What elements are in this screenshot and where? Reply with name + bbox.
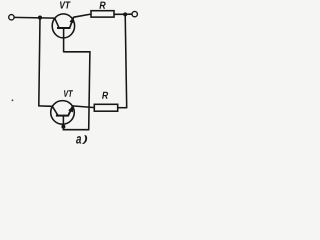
resistor R1 body (91, 11, 114, 17)
wire VT2 emitter to R2 (73, 106, 95, 108)
resistor R2 body (94, 104, 117, 111)
label R2 (102, 92, 108, 99)
label R1 (99, 2, 105, 9)
speck (print artifact) (12, 99, 14, 101)
wire VT1 base cross-coupling: right, down, left to VT2 base (63, 52, 90, 130)
label VT2 (64, 90, 73, 97)
transistor VT1 collector lead (55, 18, 60, 28)
wire right vertical (node B down to R2 output) (125, 14, 127, 107)
label a) figure caption (76, 136, 81, 143)
wire left vertical (node A to VT2 collector rail) (39, 18, 40, 106)
wire VT1 emitter to R1 (74, 14, 92, 17)
wire top-left rail (14, 16, 55, 19)
transistor VT2 base bar (56, 115, 69, 117)
junction dot on VT2 base lead (61, 125, 65, 129)
transistor VT1 circle (52, 14, 74, 38)
wire R1 to terminal T2 (114, 13, 132, 15)
wire R2 to right vertical (118, 107, 128, 109)
transistor VT2 collector lead (52, 106, 58, 116)
wire bottom-left horizontal into VT2 (38, 105, 52, 107)
terminal T2 (top-right output) (132, 11, 137, 16)
transistor VT1 base lead down (63, 28, 65, 52)
transistor VT2 base lead down (62, 116, 64, 130)
transistor VT1 base bar (57, 27, 70, 29)
junction node B (top-right rail to right vertical) (123, 12, 127, 16)
transistor VT2 emitter lead with arrow (68, 106, 74, 116)
label VT1 (60, 1, 71, 8)
junction node A (top-left rail to cross wire) (38, 16, 42, 20)
transistor VT2 circle (51, 101, 75, 125)
transistor VT1 emitter lead with arrow (70, 17, 74, 28)
terminal T1 (top-left input) (9, 15, 14, 20)
